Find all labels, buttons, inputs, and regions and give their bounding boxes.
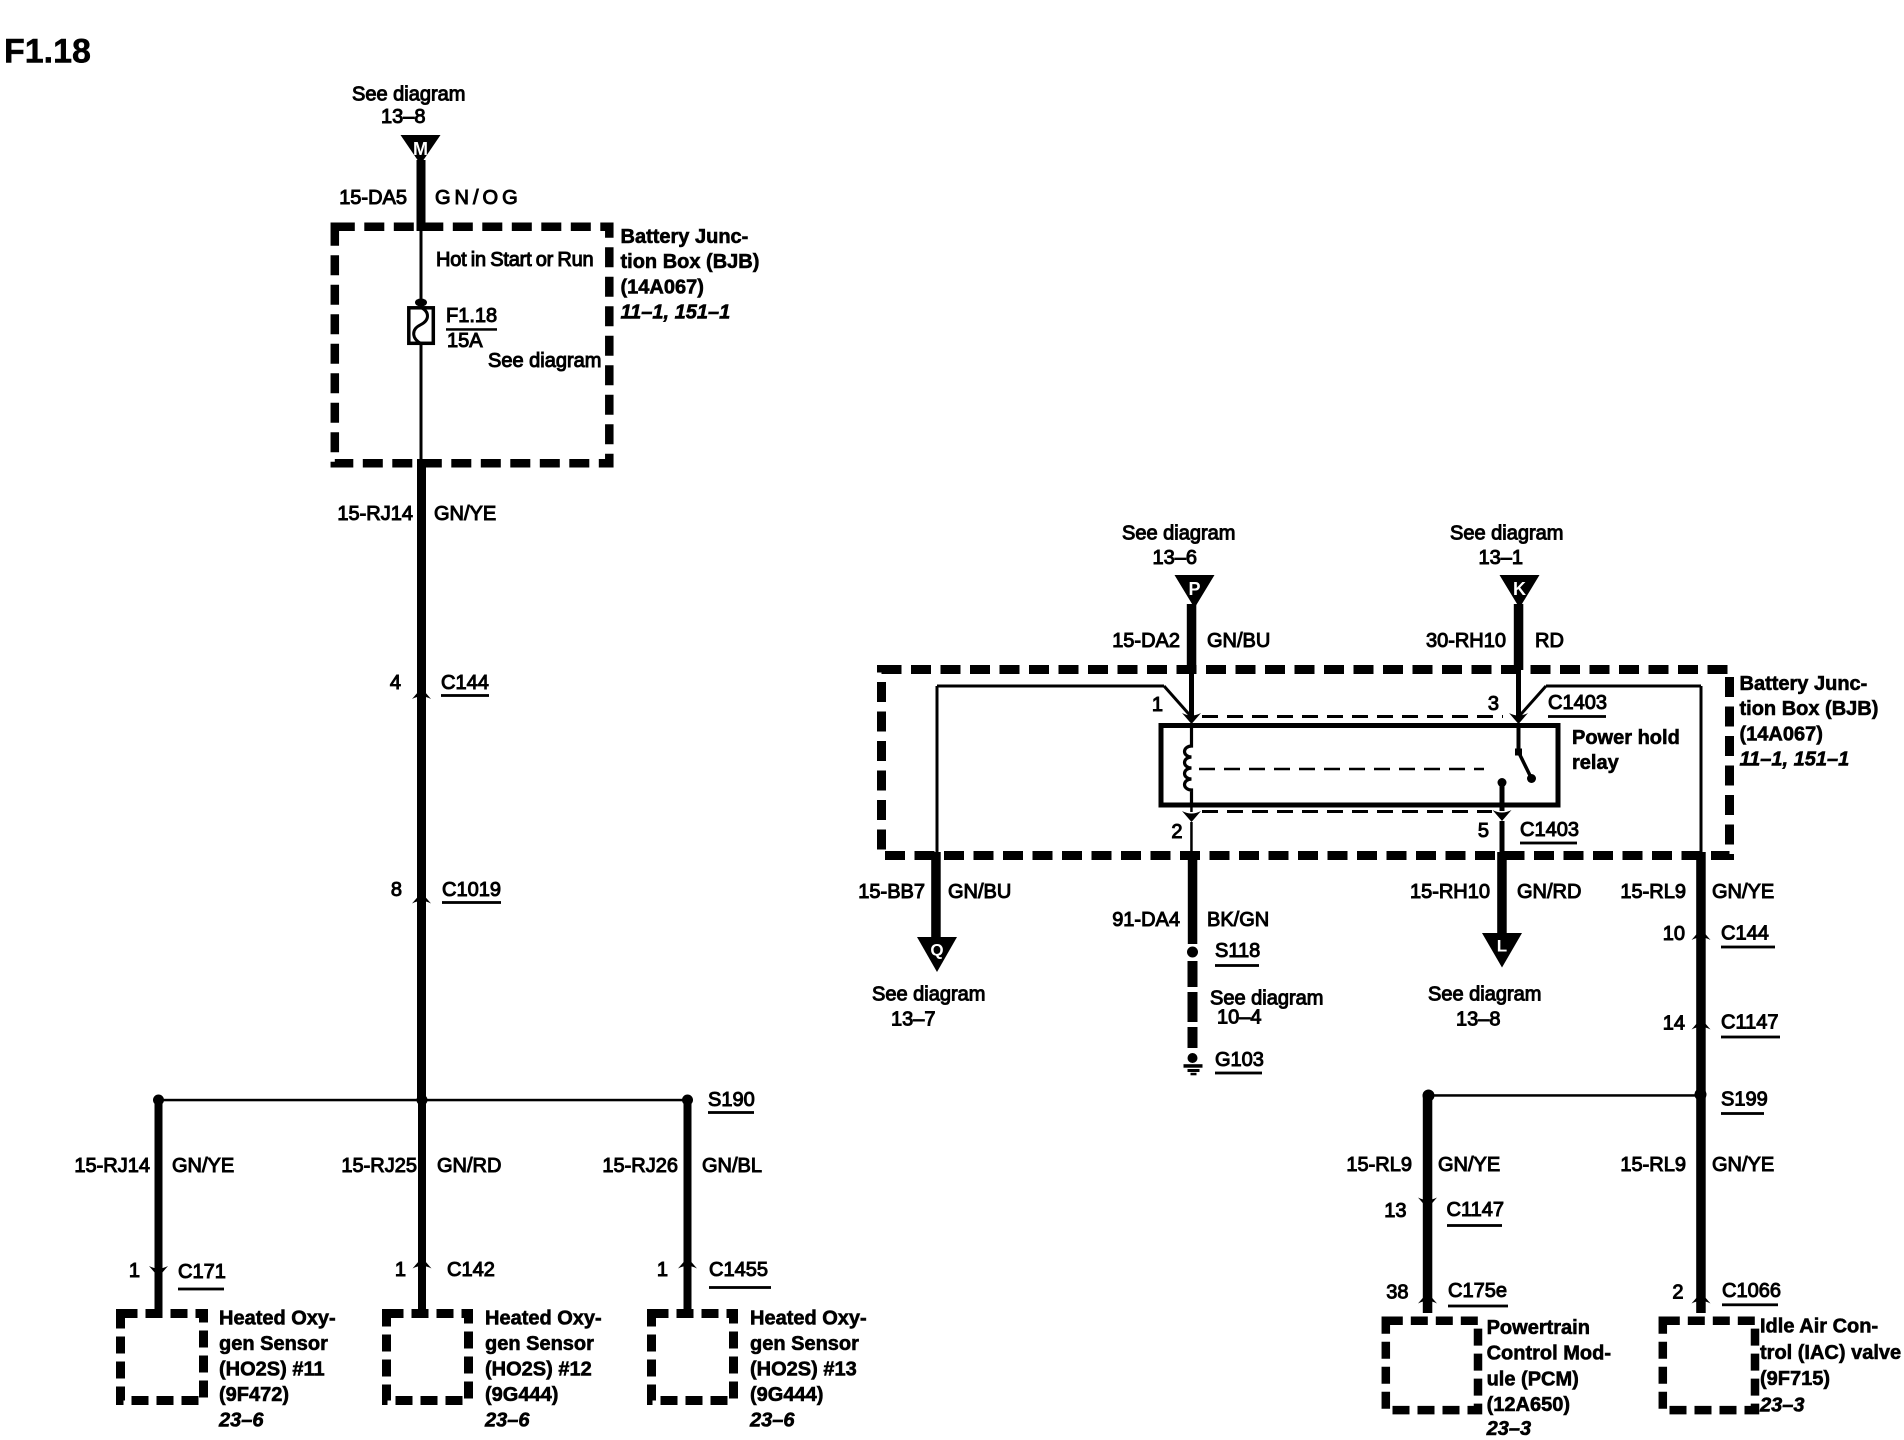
svg-text:RD: RD <box>1535 630 1564 652</box>
svg-text:(HO2S) #12: (HO2S) #12 <box>485 1359 592 1381</box>
svg-text:23–3: 23–3 <box>1759 1394 1805 1416</box>
svg-text:3: 3 <box>1488 693 1499 715</box>
svg-text:See diagram: See diagram <box>1450 523 1563 545</box>
svg-text:GN/OG: GN/OG <box>435 187 522 209</box>
svg-text:23–6: 23–6 <box>749 1410 795 1432</box>
svg-text:relay: relay <box>1572 752 1620 774</box>
svg-text:C144: C144 <box>1721 923 1769 945</box>
svg-text:15-RJ25: 15-RJ25 <box>341 1155 417 1177</box>
svg-text:4: 4 <box>390 672 401 694</box>
svg-text:P: P <box>1188 579 1200 599</box>
svg-text:15-BB7: 15-BB7 <box>858 881 925 903</box>
svg-text:Battery Junc-: Battery Junc- <box>621 226 749 248</box>
svg-text:G103: G103 <box>1215 1049 1264 1071</box>
svg-text:GN/YE: GN/YE <box>172 1155 234 1177</box>
svg-text:M: M <box>413 139 428 159</box>
svg-text:C1147: C1147 <box>1721 1012 1778 1034</box>
svg-text:C1455: C1455 <box>709 1259 768 1281</box>
svg-text:C1403: C1403 <box>1520 819 1579 841</box>
svg-text:S118: S118 <box>1215 940 1260 962</box>
svg-text:C1019: C1019 <box>442 879 501 901</box>
svg-text:GN/BU: GN/BU <box>948 881 1011 903</box>
svg-text:See diagram: See diagram <box>488 350 601 372</box>
svg-text:13–6: 13–6 <box>1153 547 1198 569</box>
svg-text:15-RJ14: 15-RJ14 <box>74 1155 150 1177</box>
svg-text:91-DA4: 91-DA4 <box>1112 909 1180 931</box>
svg-text:L: L <box>1497 937 1507 956</box>
svg-text:(9G444): (9G444) <box>750 1384 823 1406</box>
svg-text:Heated Oxy-: Heated Oxy- <box>750 1308 867 1330</box>
svg-text:13–8: 13–8 <box>381 106 426 128</box>
svg-text:GN/RD: GN/RD <box>437 1155 501 1177</box>
svg-text:GN/BU: GN/BU <box>1207 630 1270 652</box>
svg-text:ule (PCM): ule (PCM) <box>1487 1368 1579 1390</box>
svg-text:15-RL9: 15-RL9 <box>1620 1154 1686 1176</box>
svg-text:(9F472): (9F472) <box>219 1384 289 1406</box>
svg-text:5: 5 <box>1478 820 1489 842</box>
svg-text:30-RH10: 30-RH10 <box>1426 630 1506 652</box>
svg-text:13: 13 <box>1384 1200 1406 1222</box>
svg-text:Heated Oxy-: Heated Oxy- <box>219 1308 336 1330</box>
svg-text:13–7: 13–7 <box>891 1009 936 1031</box>
svg-text:15-RJ14: 15-RJ14 <box>337 503 413 525</box>
svg-text:See diagram: See diagram <box>352 84 465 106</box>
svg-text:15-DA5: 15-DA5 <box>339 187 407 209</box>
svg-text:C175e: C175e <box>1448 1280 1507 1302</box>
svg-text:S199: S199 <box>1721 1089 1768 1111</box>
svg-text:10: 10 <box>1663 923 1685 945</box>
svg-text:Power hold: Power hold <box>1572 727 1680 749</box>
svg-text:trol (IAC) valve: trol (IAC) valve <box>1760 1342 1901 1364</box>
svg-text:K: K <box>1513 579 1526 599</box>
svg-text:15-RL9: 15-RL9 <box>1346 1154 1412 1176</box>
svg-text:15-RH10: 15-RH10 <box>1410 881 1490 903</box>
svg-text:GN/RD: GN/RD <box>1517 881 1581 903</box>
svg-text:(14A067): (14A067) <box>621 276 704 298</box>
svg-text:15-RL9: 15-RL9 <box>1620 881 1686 903</box>
svg-text:2: 2 <box>1672 1281 1683 1303</box>
svg-text:(9G444): (9G444) <box>485 1384 558 1406</box>
svg-text:Q: Q <box>930 941 943 960</box>
svg-text:Hot in Start or Run: Hot in Start or Run <box>436 249 593 271</box>
svg-text:F1.18: F1.18 <box>4 33 91 71</box>
svg-text:15-DA2: 15-DA2 <box>1112 630 1180 652</box>
svg-text:GN/YE: GN/YE <box>1712 1154 1774 1176</box>
svg-text:14: 14 <box>1663 1013 1685 1035</box>
svg-text:gen Sensor: gen Sensor <box>485 1333 594 1355</box>
svg-text:BK/GN: BK/GN <box>1207 909 1269 931</box>
svg-text:(12A650): (12A650) <box>1487 1394 1570 1416</box>
svg-text:C144: C144 <box>441 672 489 694</box>
svg-text:8: 8 <box>391 879 402 901</box>
svg-text:13–1: 13–1 <box>1479 547 1524 569</box>
svg-text:2: 2 <box>1171 821 1182 843</box>
svg-text:15A: 15A <box>447 330 483 352</box>
svg-text:See diagram: See diagram <box>872 984 985 1006</box>
svg-text:See diagram: See diagram <box>1122 523 1235 545</box>
svg-text:23–6: 23–6 <box>484 1410 530 1432</box>
svg-text:C1066: C1066 <box>1722 1280 1781 1302</box>
svg-text:GN/YE: GN/YE <box>434 503 496 525</box>
svg-text:Powertrain: Powertrain <box>1487 1317 1590 1339</box>
svg-text:23–6: 23–6 <box>218 1410 264 1432</box>
svg-text:Idle Air Con-: Idle Air Con- <box>1760 1316 1878 1338</box>
svg-text:gen Sensor: gen Sensor <box>219 1333 328 1355</box>
svg-text:C1403: C1403 <box>1548 692 1607 714</box>
svg-text:C1147: C1147 <box>1447 1199 1504 1221</box>
svg-text:10–4: 10–4 <box>1217 1007 1262 1029</box>
svg-text:1: 1 <box>657 1259 668 1281</box>
svg-text:1: 1 <box>395 1259 406 1281</box>
svg-text:C142: C142 <box>447 1259 495 1281</box>
svg-text:tion Box (BJB): tion Box (BJB) <box>621 251 760 273</box>
svg-text:(9F715): (9F715) <box>1760 1368 1830 1390</box>
svg-text:11–1, 151–1: 11–1, 151–1 <box>621 302 731 324</box>
svg-text:Battery Junc-: Battery Junc- <box>1740 673 1868 695</box>
svg-text:GN/BL: GN/BL <box>702 1155 762 1177</box>
svg-text:GN/YE: GN/YE <box>1438 1154 1500 1176</box>
svg-text:See diagram: See diagram <box>1428 984 1541 1006</box>
svg-text:15-RJ26: 15-RJ26 <box>602 1155 678 1177</box>
svg-text:tion Box (BJB): tion Box (BJB) <box>1740 698 1879 720</box>
svg-text:1: 1 <box>129 1260 140 1282</box>
svg-text:S190: S190 <box>708 1089 755 1111</box>
svg-text:(14A067): (14A067) <box>1740 723 1823 745</box>
svg-text:Heated Oxy-: Heated Oxy- <box>485 1308 602 1330</box>
svg-text:(HO2S) #13: (HO2S) #13 <box>750 1359 857 1381</box>
svg-text:F1.18: F1.18 <box>446 305 497 327</box>
svg-text:C171: C171 <box>178 1261 226 1283</box>
svg-text:11–1, 151–1: 11–1, 151–1 <box>1740 749 1850 771</box>
svg-text:GN/YE: GN/YE <box>1712 881 1774 903</box>
svg-text:(HO2S) #11: (HO2S) #11 <box>219 1359 325 1381</box>
svg-text:Control Mod-: Control Mod- <box>1487 1343 1611 1365</box>
svg-text:38: 38 <box>1386 1281 1408 1303</box>
svg-text:gen Sensor: gen Sensor <box>750 1333 859 1355</box>
svg-text:23–3: 23–3 <box>1486 1418 1532 1440</box>
svg-text:13–8: 13–8 <box>1456 1009 1501 1031</box>
svg-text:1: 1 <box>1152 694 1163 716</box>
